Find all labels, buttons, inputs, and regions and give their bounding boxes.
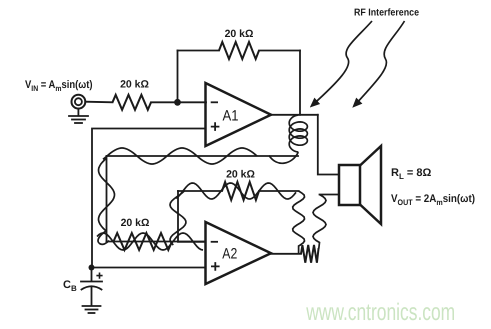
capacitor CB	[81, 268, 102, 306]
svg-text:www.cntronics.com: www.cntronics.com	[305, 299, 455, 326]
node junction CB / A2+	[89, 265, 95, 271]
RF arrow 2	[355, 21, 405, 106]
speaker RL	[339, 146, 381, 224]
RF arrow 1	[312, 21, 372, 106]
wire A2 feedback right vertical (squiggle)	[293, 191, 305, 253]
resistor R4 20k feedback A2	[222, 182, 259, 200]
ground (CB)	[83, 306, 101, 313]
wire A2 output	[271, 253, 301, 255]
ground (input)	[69, 109, 88, 123]
RF scribble zigzag on A2 output	[301, 245, 319, 263]
svg-text:A1: A1	[223, 107, 239, 124]
op-amp A1	[206, 83, 272, 146]
wire A2 feedback top left segment	[178, 190, 222, 192]
input terminal (source)	[72, 95, 86, 109]
wire A1 noninverting input	[92, 129, 206, 268]
svg-text:20 kΩ: 20 kΩ	[120, 79, 149, 91]
wire A1 output down to speaker top	[318, 115, 339, 175]
RF sine on horizontal y156	[103, 148, 257, 164]
wire speaker bottom horizontal	[320, 194, 340, 196]
resistor R3 20k to A2	[114, 233, 173, 250]
wire noisy lower horizontal to A2 inverting	[107, 241, 206, 243]
svg-text:20 kΩ: 20 kΩ	[226, 169, 255, 181]
op-amp A2	[206, 222, 272, 284]
svg-text:RL = 8Ω: RL = 8Ω	[391, 167, 431, 181]
svg-text:A2: A2	[222, 246, 237, 263]
RF sine on A2 feedback horizontal	[176, 183, 296, 199]
node junction input/feedback	[174, 99, 181, 106]
svg-text:20 kΩ: 20 kΩ	[121, 217, 150, 229]
coil RF pickup on A1 output	[289, 115, 307, 152]
wire noisy vertical x107	[106, 156, 108, 242]
wire A2 feedback left vertical	[177, 191, 179, 242]
wire A2 feedback top right segment	[259, 190, 299, 192]
wire A1 output	[271, 114, 318, 116]
wire input to resistor R1	[85, 101, 112, 104]
wire noisy horizontal y156	[107, 155, 299, 157]
wire feedback right vertical to A1 output	[299, 51, 301, 115]
wire A2 output up to speaker bottom (squiggle)	[313, 195, 326, 249]
wire A2 inverting stub	[178, 241, 206, 243]
wire R1 to A1 inverting input	[151, 101, 206, 103]
svg-text:20 kΩ: 20 kΩ	[225, 28, 254, 40]
wire feedback top left segment	[178, 50, 220, 52]
wire feedback top right segment	[259, 50, 300, 52]
resistor R1 20k input	[113, 95, 152, 110]
RF sine on vertical x107	[98, 158, 115, 244]
RF dip end of y156	[269, 152, 298, 163]
resistor R2 20k feedback A1	[219, 42, 259, 59]
wire feedback left vertical	[177, 51, 179, 103]
svg-text:RF Interference: RF Interference	[354, 8, 419, 19]
wire A2 noninverting input	[92, 267, 206, 269]
RF sine on A2 feedback vertical	[170, 191, 186, 245]
RF sine on lower horizontal	[97, 233, 203, 250]
